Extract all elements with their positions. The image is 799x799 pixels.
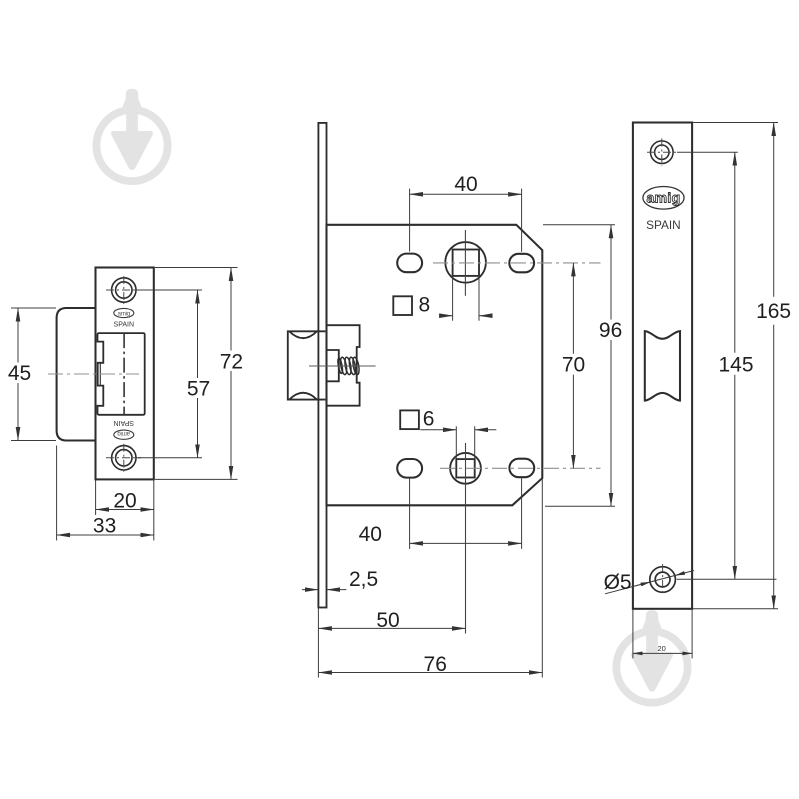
faceplate top screw hole bbox=[651, 141, 674, 164]
svg-text:Ø5: Ø5 bbox=[604, 571, 632, 594]
faceplate bar (middle view) bbox=[318, 123, 326, 608]
svg-text:40: 40 bbox=[454, 173, 477, 196]
bottom spindle vertical centerline/extension bbox=[465, 443, 467, 634]
dimension 76 bbox=[318, 478, 542, 677]
top spindle circle bbox=[445, 242, 486, 283]
watermark top-left logo bbox=[96, 90, 167, 181]
svg-text:20: 20 bbox=[113, 489, 136, 512]
dimension 8 arrows bbox=[441, 276, 491, 321]
bottom right oval hole bbox=[509, 459, 534, 478]
amig logo oval top (left view) bbox=[114, 308, 134, 317]
faceplate bottom hole centerline tick bbox=[662, 564, 664, 596]
top right oval hole bbox=[509, 254, 534, 272]
dimension 40 bottom bbox=[359, 478, 522, 549]
latch bolt bbox=[288, 331, 326, 399]
latch bracket inner rect bbox=[327, 350, 339, 381]
svg-text:33: 33 bbox=[93, 515, 116, 538]
strike plate lip bbox=[57, 308, 96, 441]
bottom left oval hole bbox=[397, 459, 422, 478]
svg-text:8: 8 bbox=[418, 293, 430, 316]
dimension 70 bbox=[562, 263, 585, 468]
dimension 20 (right view bottom) bbox=[633, 609, 692, 658]
svg-text:amig: amig bbox=[117, 430, 130, 437]
dimension 50 bbox=[318, 608, 465, 634]
svg-text:amig: amig bbox=[647, 190, 681, 206]
strike plate fold line bbox=[123, 333, 125, 415]
strike plate bottom screw hole bbox=[112, 446, 136, 470]
dimension 33 bbox=[57, 446, 154, 541]
dimension square 6 label bbox=[400, 407, 434, 430]
faceplate front view bbox=[633, 123, 692, 609]
svg-text:72: 72 bbox=[220, 350, 243, 373]
svg-text:145: 145 bbox=[718, 354, 753, 377]
svg-text:6: 6 bbox=[423, 407, 435, 430]
dimension 2,5 bbox=[302, 568, 378, 591]
strike plate body bbox=[96, 268, 154, 480]
strike plate horizontal centerline bbox=[48, 373, 139, 375]
lock body outline bbox=[327, 225, 543, 506]
dimension square 8 label bbox=[393, 293, 430, 316]
svg-text:165: 165 bbox=[756, 300, 791, 323]
dimension 165 bbox=[693, 123, 792, 609]
top row horizontal centerline bbox=[433, 262, 601, 264]
latch bracket housing bbox=[327, 325, 360, 406]
watermark bottom-right logo bbox=[616, 612, 687, 703]
strike plate latch opening bbox=[98, 333, 145, 415]
hole centerline ticks top bbox=[106, 276, 141, 304]
dimension 57 bbox=[136, 290, 210, 458]
svg-text:96: 96 bbox=[599, 319, 622, 342]
svg-text:SPAIN: SPAIN bbox=[114, 321, 135, 328]
bottom spindle circle bbox=[450, 453, 481, 484]
amig logo oval (right view) bbox=[643, 187, 684, 210]
svg-text:57: 57 bbox=[187, 377, 210, 400]
top spindle vertical centerline bbox=[464, 230, 466, 296]
svg-text:2,5: 2,5 bbox=[349, 568, 378, 591]
svg-text:50: 50 bbox=[376, 609, 399, 632]
faceplate latch cutout bbox=[645, 331, 680, 401]
svg-text:SPAIN: SPAIN bbox=[114, 419, 135, 426]
dimension 6 arrows bbox=[420, 426, 496, 459]
amig logo oval bottom rotated (left view) bbox=[114, 430, 134, 439]
faceplate top hole centerline ticks bbox=[647, 139, 677, 167]
bottom row horizontal centerline bbox=[440, 467, 601, 469]
dimension 145 bbox=[677, 152, 777, 579]
dimension 45 bbox=[8, 308, 56, 441]
svg-text:45: 45 bbox=[8, 362, 31, 385]
svg-text:76: 76 bbox=[424, 653, 447, 676]
svg-text:SPAIN: SPAIN bbox=[646, 218, 681, 232]
faceplate bottom screw hole bbox=[650, 567, 676, 593]
strike plate top screw hole bbox=[112, 278, 136, 302]
top spindle square 8mm bbox=[453, 250, 479, 276]
dimension diameter 5 leader bbox=[604, 571, 694, 595]
svg-text:20: 20 bbox=[658, 644, 666, 653]
hole centerline ticks bottom bbox=[106, 444, 141, 472]
svg-text:40: 40 bbox=[359, 523, 382, 546]
bottom spindle square 6mm bbox=[456, 459, 474, 477]
dimension 96 bbox=[543, 225, 622, 507]
svg-text:amig: amig bbox=[117, 310, 130, 317]
dimension 40 top bbox=[410, 173, 522, 252]
dimension 72 bbox=[155, 268, 243, 480]
latch centerline bbox=[309, 365, 376, 367]
latch spring bbox=[337, 357, 360, 375]
top left oval hole bbox=[397, 254, 422, 273]
latch opening tab inner line bbox=[99, 363, 101, 386]
svg-text:70: 70 bbox=[562, 354, 585, 377]
dimension 20 (left view) bbox=[96, 480, 154, 540]
